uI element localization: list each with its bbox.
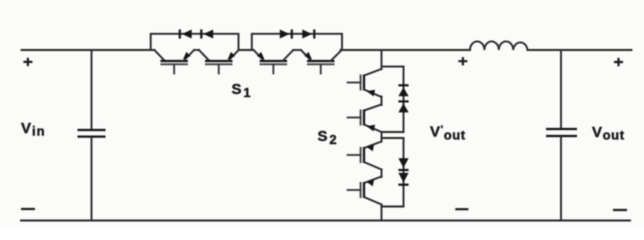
capacitor Cin <box>78 130 106 137</box>
transistor Q3 (IGBT, S1 module2 left) <box>254 50 294 74</box>
capacitor Cout bottom lead wire <box>560 137 562 221</box>
capacitor Cout <box>546 129 577 136</box>
label S1 <box>232 81 252 100</box>
switch S1 module 2 loop wire <box>252 34 342 50</box>
label V'out <box>430 124 466 143</box>
wire top bus segment F <box>528 49 632 51</box>
diode D5 (points up) <box>398 85 408 96</box>
diode D2 (points left) <box>201 29 213 38</box>
transistor Q4 (IGBT, S1 module2 right) <box>301 50 342 74</box>
node - label: minus sign of Vout <box>613 209 627 211</box>
node - label: minus sign of Vin <box>21 208 35 210</box>
wire top bus segment C <box>239 49 254 51</box>
wire lower diode branch vertical <box>403 138 405 207</box>
svg-text:Vout: Vout <box>592 124 625 143</box>
wire S2 bottom node to diode branch <box>382 206 404 208</box>
node + label: plus sign of Vin <box>23 58 32 66</box>
wire S2 lower node to diode branch <box>382 137 404 139</box>
label S2 <box>318 128 338 147</box>
wire S2 lower middle segment <box>381 170 383 178</box>
diode D3 (points right) <box>280 29 292 38</box>
transistor Q1 (IGBT, S1 module1 left) <box>154 50 194 74</box>
svg-text:Vin: Vin <box>21 120 46 139</box>
transistor Q5 (IGBT, S2 upper top) <box>348 69 382 97</box>
transistor Q6 (IGBT, S2 upper bottom) <box>348 105 382 133</box>
wire S2 upper module bottom node to diode branch <box>382 131 404 133</box>
wire top bus segment A <box>22 49 155 51</box>
svg-text:S1: S1 <box>232 81 252 100</box>
wire S2 upper middle segment <box>381 97 383 106</box>
node + label: plus sign of Vout <box>614 58 623 66</box>
capacitor Cin bottom lead wire <box>91 137 93 220</box>
label Vin <box>21 120 46 139</box>
wire S2 top drop <box>381 50 383 69</box>
label Vout <box>592 124 625 143</box>
node + label: plus sign of V'out <box>458 57 467 65</box>
capacitor Cin top lead wire <box>91 50 93 129</box>
inductor L1 <box>470 41 528 50</box>
wire S2 bottom drop <box>381 205 383 221</box>
diode D1 (points left) <box>180 29 192 38</box>
wire S2 mid connector <box>381 132 383 142</box>
capacitor Cout top lead wire <box>560 50 562 128</box>
diode D8 (points down) <box>398 173 408 185</box>
diode D7 (points down) <box>398 158 408 170</box>
svg-text:V'out: V'out <box>430 124 466 143</box>
transistor Q7 (IGBT, S2 lower top) <box>348 142 382 170</box>
svg-text:S2: S2 <box>318 128 338 147</box>
wire bottom bus <box>21 220 630 222</box>
transistor Q2 (IGBT, S1 module1 right) <box>199 50 239 74</box>
diode D4 (points right) <box>302 29 314 38</box>
transistor Q8 (IGBT, S2 lower bottom) <box>348 177 382 205</box>
wire upper diode branch vertical <box>403 67 405 132</box>
wire top bus segment D <box>293 49 301 51</box>
switch S1 module 1 loop wire <box>151 34 239 50</box>
wire top bus segment E <box>341 49 471 51</box>
wire top bus segment B <box>194 49 199 51</box>
node - label: minus sign of V'out <box>455 208 468 210</box>
wire S2 upper node to diode branch <box>382 66 404 68</box>
diode D6 (points up) <box>398 101 408 112</box>
